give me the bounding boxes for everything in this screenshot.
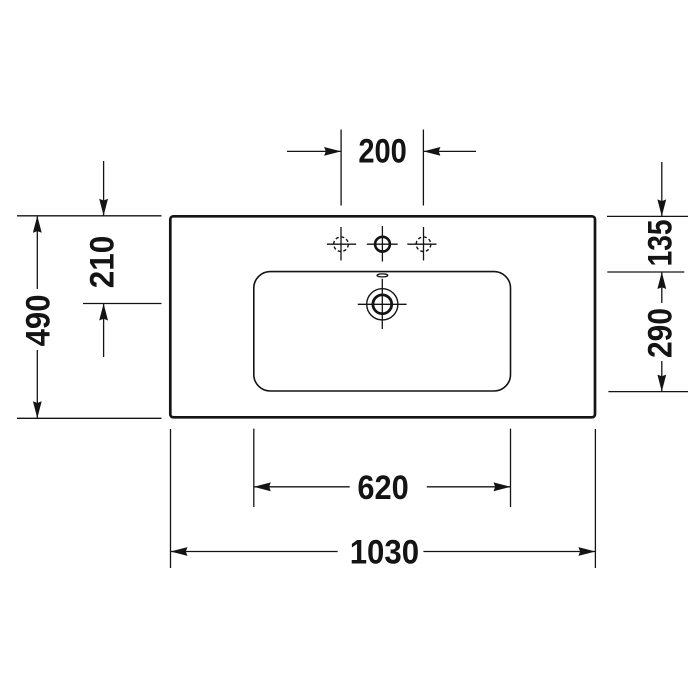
dim 290 arrow up <box>657 272 666 289</box>
dim 1030 arrow right <box>578 547 595 556</box>
basin inner bowl outline <box>254 272 511 391</box>
overflow slot <box>377 274 388 277</box>
svg-text:620: 620 <box>357 469 408 507</box>
dim 1030 extension line left <box>170 429 172 568</box>
drain centerline horizontal <box>358 303 407 305</box>
dim 290 extension line bottom (basin bottom) <box>608 391 688 393</box>
svg-text:200: 200 <box>358 133 407 171</box>
dim 210 arrow up <box>99 304 108 321</box>
dim 490 line upper segment <box>36 216 38 289</box>
faucet hole right centerline vertical <box>423 227 425 261</box>
dim 490 line lower segment <box>36 350 38 418</box>
dim 200 extension line right <box>422 130 424 206</box>
dim 1030 arrow left <box>171 547 188 556</box>
dim 490 extension line top <box>17 215 162 217</box>
dim 1030 extension line right <box>594 429 596 568</box>
dim 200 leader right <box>423 150 476 152</box>
svg-text:135: 135 <box>642 219 680 266</box>
dim 200 arrow left <box>324 147 341 156</box>
dim 210 leader bottom <box>103 304 105 358</box>
dim 620 arrow right <box>494 482 511 491</box>
dim 135 extension line bottom (basin rim) <box>607 271 684 273</box>
svg-text:490: 490 <box>19 294 57 346</box>
dim 490 arrow down <box>33 401 42 418</box>
washbasin outer outline <box>170 216 595 417</box>
dim 200 arrow right <box>423 147 440 156</box>
drain centerline vertical <box>381 279 383 329</box>
svg-text:290: 290 <box>642 308 680 358</box>
dim 135 arrow down <box>657 199 666 216</box>
dim 490 arrow up <box>33 216 42 233</box>
faucet hole left centerline vertical <box>340 227 342 261</box>
dim 200 leader left <box>287 150 341 152</box>
drain inner circle <box>373 295 392 314</box>
dim 1030 line right segment <box>423 551 595 553</box>
dim 200 extension line left <box>340 130 342 206</box>
dim 210 extension line at drain axis <box>83 303 162 305</box>
faucet hole left (dashed) <box>334 237 349 252</box>
drain outer circle <box>367 289 398 320</box>
dim 290 line upper segment <box>661 272 663 303</box>
dim 135 leader top <box>661 162 663 216</box>
dim 210 arrow down <box>99 199 108 216</box>
dim 1030 line left segment <box>171 551 338 553</box>
faucet hole right centerline horizontal <box>407 243 436 245</box>
dim 135 extension line top <box>607 215 688 217</box>
dim 620 extension line left <box>253 429 255 508</box>
svg-text:210: 210 <box>84 236 122 289</box>
dim 290 arrow down <box>657 375 666 392</box>
dim 620 extension line right <box>510 429 512 508</box>
dim 620 arrow left <box>254 482 271 491</box>
faucet hole center centerline horizontal <box>367 243 398 245</box>
dim 290 line lower segment <box>661 361 663 392</box>
faucet hole right (dashed) <box>416 237 431 252</box>
dim 210 leader top <box>103 161 105 216</box>
dim 620 line right segment <box>427 486 511 488</box>
faucet hole center <box>375 237 390 252</box>
faucet hole left centerline horizontal <box>327 243 356 245</box>
svg-text:1030: 1030 <box>350 533 419 571</box>
dim 490 extension line bottom <box>17 417 162 419</box>
faucet hole center centerline vertical <box>381 226 383 262</box>
dim 620 line left segment <box>254 486 350 488</box>
